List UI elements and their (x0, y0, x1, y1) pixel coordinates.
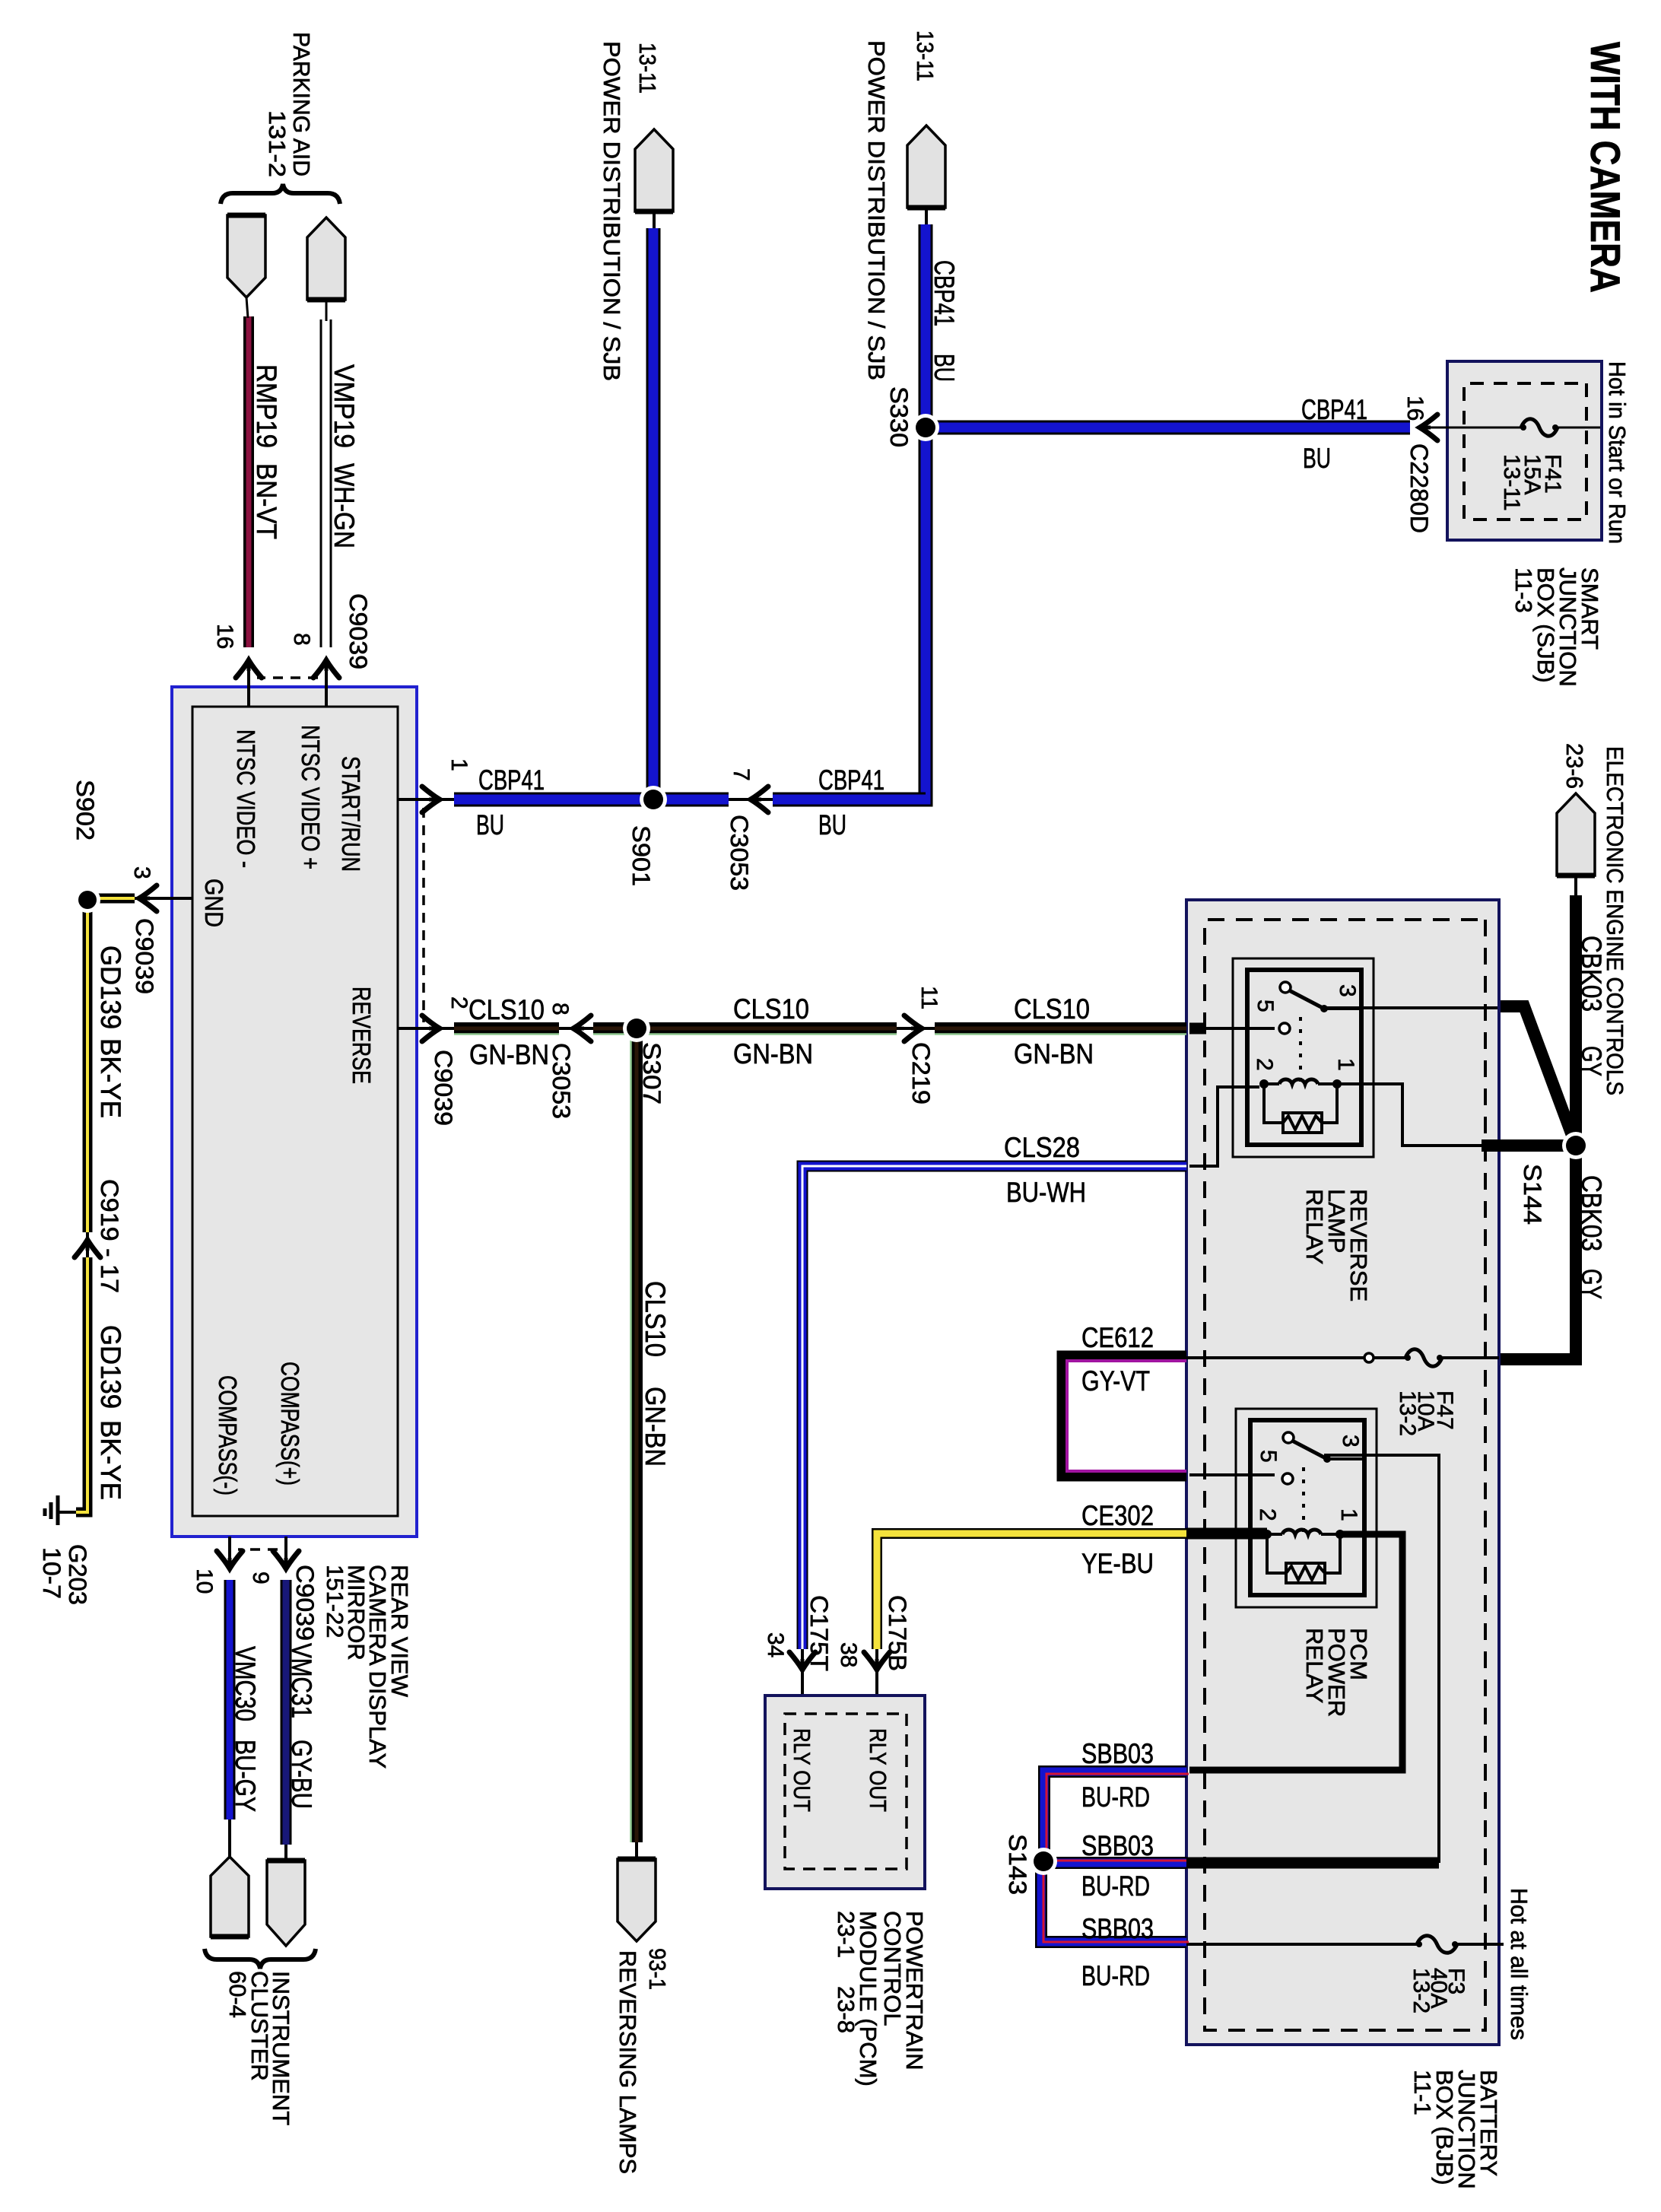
wire SBB03 BU-RD #2 from S143 to BJB (relay pin3) (1043, 1857, 1186, 1869)
svg-text:BK-YE: BK-YE (95, 1038, 126, 1118)
svg-text:CLS10: CLS10 (640, 1281, 671, 1357)
wire CBK03 GY heavy from S144 to corner and down to F47 (1570, 1146, 1582, 1359)
svg-text:C3053: C3053 (548, 1043, 575, 1119)
off-page arrow POWER DISTRIBUTION / SJB (to S901) (635, 129, 673, 211)
wire CLS28 BU-WH from BJB to corner and PCM (802, 1166, 1186, 1649)
svg-text:POWER DISTRIBUTION / SJB: POWER DISTRIBUTION / SJB (599, 41, 625, 381)
fuse F47 terminal circle (1364, 1353, 1374, 1362)
svg-text:COMPASS(-): COMPASS(-) (214, 1375, 242, 1495)
svg-text:VMC30: VMC30 (230, 1646, 261, 1721)
svg-text:VMC31: VMC31 (286, 1643, 317, 1718)
off-page arrow from PARKING AID (VMP19) (307, 218, 345, 300)
svg-text:C175T: C175T (805, 1595, 833, 1671)
svg-text:3: 3 (1335, 984, 1360, 997)
wire CLS10 GN-BN from S307 to C3053 (593, 1022, 637, 1034)
PCM power relay pin 5 wire to CE612 (1189, 1473, 1275, 1476)
svg-text:POWER DISTRIBUTION / SJB: POWER DISTRIBUTION / SJB (863, 40, 890, 380)
svg-text:CONTROL: CONTROL (879, 1911, 906, 2026)
wire VMC30 BU-GY from mirror pin 10 to instrument cluster (224, 1580, 236, 1819)
svg-text:START/RUN: START/RUN (337, 756, 365, 872)
svg-text:C919 - 17: C919 - 17 (96, 1179, 123, 1293)
splice S330 (912, 414, 939, 441)
dashed connector line C9039 pins 16-8 (257, 676, 318, 679)
mirror pin 10 lead and connector C9039 arrow (228, 1537, 231, 1567)
svg-text:BK-YE: BK-YE (95, 1420, 126, 1500)
wire CE612 GY-VT loop from BJB (F47) to BJB (PCM relay pin5) (1062, 1356, 1186, 1476)
svg-text:CBP41: CBP41 (1301, 394, 1367, 425)
relay REVERSE LAMP RELAY switch pivot circle (1280, 982, 1291, 993)
svg-text:WH-GN: WH-GN (329, 463, 360, 548)
svg-text:RLY OUT: RLY OUT (789, 1728, 815, 1812)
PCM power relay pin 1 wire loop to SBB03 (1189, 1534, 1402, 1770)
fuse F47 symbol (1405, 1349, 1442, 1367)
svg-text:GY: GY (1576, 1269, 1607, 1299)
svg-text:3: 3 (129, 866, 154, 879)
mirror inner box (192, 707, 398, 1516)
svg-text:NTSC VIDEO +: NTSC VIDEO + (297, 725, 325, 869)
svg-text:C9039: C9039 (430, 1050, 457, 1126)
mirror pin 8 lead and connector C9039 arrow (325, 662, 328, 707)
svg-text:2: 2 (1252, 1058, 1277, 1071)
relay PCM POWER RELAY pin 3 lead (1327, 1457, 1364, 1460)
ground G203 lead (58, 1511, 76, 1514)
wire GD139 BK-YE from C919 to ground G203 (76, 1257, 87, 1512)
svg-text:CBK03: CBK03 (1576, 936, 1607, 1012)
wire CBK03 GY heavy from EEC arrow to S144 (1574, 875, 1577, 895)
thin link at connector C3053 (CLS10) (559, 1027, 593, 1030)
wire SBB03 BU-RD #3 from S143 to BJB (F3) (1041, 1861, 1186, 1942)
svg-text:RELAY: RELAY (1301, 1628, 1328, 1703)
svg-text:CLS28: CLS28 (1004, 1132, 1080, 1163)
svg-text:C175B: C175B (884, 1595, 911, 1671)
mirror pin 2 lead and connector C9039 arrow (398, 1027, 454, 1030)
wire CBP41 BU vertical upper segment (corner to C3053) (773, 793, 926, 807)
connector C175B arrow pin 38 (875, 1649, 878, 1717)
svg-text:13-11: 13-11 (1499, 454, 1524, 511)
splice S143 (1030, 1848, 1057, 1875)
svg-text:WITH CAMERA: WITH CAMERA (1582, 42, 1629, 293)
diagonal heavy wire S144 to reverse lamp relay pin 3 entry (1497, 1006, 1576, 1146)
svg-text:CBK03: CBK03 (1576, 1175, 1607, 1251)
svg-text:13-2: 13-2 (1395, 1390, 1420, 1436)
svg-text:5: 5 (1253, 1000, 1278, 1012)
POWERTRAIN CONTROL MODULE box (765, 1696, 925, 1889)
svg-text:13-11: 13-11 (634, 43, 661, 94)
wire CLS10 GN-BN from C219 to S307 (637, 1022, 897, 1034)
svg-text:S144: S144 (1519, 1164, 1546, 1225)
svg-text:8: 8 (548, 1003, 573, 1015)
BATTERY JUNCTION BOX outer box (1186, 900, 1499, 2045)
wire CLS10 GN-BN from BJB to C219 (935, 1022, 1186, 1034)
connector C3053 arrow pin 8 (573, 1015, 591, 1041)
BJB inner dashed box (1205, 920, 1485, 2030)
svg-text:GD139: GD139 (95, 946, 126, 1029)
svg-text:2: 2 (446, 996, 472, 1009)
wire GD139 BK-YE from S902 to C919 (83, 900, 93, 1232)
svg-text:RLY OUT: RLY OUT (865, 1728, 891, 1812)
relay REVERSE LAMP RELAY outer box (1233, 958, 1374, 1157)
svg-text:REVERSING LAMPS: REVERSING LAMPS (615, 1950, 641, 2174)
svg-text:COMPASS(+): COMPASS(+) (276, 1362, 304, 1486)
svg-text:9: 9 (248, 1572, 273, 1584)
svg-text:131-2: 131-2 (264, 110, 291, 177)
svg-text:1: 1 (1336, 1508, 1361, 1521)
svg-text:11: 11 (916, 986, 942, 1009)
svg-text:11-1: 11-1 (1409, 2070, 1436, 2115)
relay REVERSE LAMP RELAY coil (1332, 1079, 1342, 1089)
svg-text:PARKING AID: PARKING AID (288, 32, 315, 176)
relay REVERSE LAMP RELAY resistor branch (1322, 1084, 1337, 1123)
svg-text:BU: BU (1303, 443, 1331, 474)
svg-text:C9039: C9039 (345, 593, 372, 669)
relay REVERSE LAMP RELAY pin 3 lead (1324, 1007, 1361, 1010)
svg-text:SBB03: SBB03 (1081, 1913, 1154, 1944)
svg-text:1: 1 (446, 758, 472, 771)
wire CBP41 BU vertical from SJB to S330 (932, 421, 1410, 435)
svg-text:ELECTRONIC ENGINE CONTROLS: ELECTRONIC ENGINE CONTROLS (1602, 746, 1628, 1095)
connector C219 arrow pin 11 (897, 1027, 935, 1030)
svg-text:GN-BN: GN-BN (469, 1039, 549, 1070)
PCM power relay pin 3 wire to SBB03 feed (1324, 1455, 1439, 1863)
off-page arrow ELECTRONIC ENGINE CONTROLS (1557, 793, 1595, 876)
svg-text:10-7: 10-7 (38, 1547, 65, 1599)
off-page arrow REVERSING LAMPS (635, 1842, 638, 1865)
svg-text:BN-VT: BN-VT (251, 463, 282, 539)
svg-text:CBP41: CBP41 (478, 764, 545, 796)
svg-text:CE302: CE302 (1081, 1500, 1154, 1531)
svg-text:CBP41: CBP41 (929, 260, 960, 326)
relay PCM POWER RELAY resistor zigzag (1286, 1566, 1325, 1580)
svg-text:13-2: 13-2 (1409, 1968, 1434, 2013)
relay REVERSE LAMP RELAY inner box (1247, 970, 1361, 1145)
svg-text:23-6: 23-6 (1561, 743, 1588, 789)
wire CE302 YE-BU from BJB to corner and PCM (877, 1533, 1186, 1649)
connector C3053 arrow pin 7 (751, 787, 768, 812)
mirror pin 16 lead and connector C9039 arrow (247, 662, 250, 707)
svg-text:5: 5 (1256, 1450, 1281, 1463)
wire SBB03 BU-RD #1 from BJB (relay pin1) to S143 (1044, 1772, 1186, 1861)
relay REVERSE LAMP RELAY resistor zigzag (1283, 1116, 1322, 1130)
svg-text:13-11: 13-11 (912, 30, 938, 81)
wire VMP19 WH-GN from parking aid to mirror pin 8 (white twisted pair) (330, 319, 332, 647)
reverse lamp relay pin 5 wire to CLS10 (1205, 1027, 1275, 1030)
mirror pin 1 lead and connector C9039 arrow (398, 798, 454, 801)
svg-text:GY-BU: GY-BU (286, 1740, 317, 1809)
splice S144 (1562, 1132, 1590, 1159)
splice S307 (623, 1015, 650, 1042)
svg-text:C3053: C3053 (726, 815, 753, 891)
svg-text:C9039: C9039 (131, 918, 158, 994)
svg-text:SBB03: SBB03 (1081, 1738, 1154, 1769)
off-page arrow POWER DISTRIBUTION / SJB (to S330) (907, 126, 945, 208)
svg-text:YE-BU: YE-BU (1081, 1548, 1154, 1579)
wire GD139 BK-YE stub pin3 to S902 (93, 894, 135, 904)
svg-text:BU-RD: BU-RD (1081, 1960, 1150, 1991)
harness brace PARKING AID (221, 184, 340, 204)
mirror pin 3 lead and connector C9039 arrow (135, 897, 192, 900)
svg-text:CLS10: CLS10 (733, 993, 809, 1025)
svg-text:Hot in Start or Run: Hot in Start or Run (1604, 361, 1631, 544)
svg-text:S143: S143 (1004, 1834, 1031, 1895)
svg-text:GY: GY (1576, 1046, 1607, 1076)
reverse lamp relay pin 1 wire to S144 (1337, 1084, 1482, 1146)
SJB inner dashed box (1464, 383, 1586, 520)
relay REVERSE LAMP RELAY armature dotted link (1299, 1017, 1302, 1082)
svg-text:BU: BU (476, 809, 504, 841)
svg-text:60-4: 60-4 (224, 1971, 251, 2018)
svg-text:BU-RD: BU-RD (1081, 1781, 1150, 1813)
reverse lamp relay pin 2 wire to CLS28 (1189, 1087, 1259, 1166)
connector C919-17 arrow (86, 1232, 89, 1257)
svg-text:REVERSE: REVERSE (348, 987, 376, 1084)
svg-text:Hot at all times: Hot at all times (1506, 1888, 1532, 2040)
dashed connector line C9039 pins 10-9 (238, 1548, 278, 1551)
wire CBP41 BU horizontal from arrow to S330 and corner (773, 224, 926, 799)
svg-text:11-3: 11-3 (1510, 567, 1537, 613)
svg-text:C2280D: C2280D (1405, 443, 1433, 533)
svg-text:G203: G203 (64, 1544, 91, 1605)
svg-text:7: 7 (729, 768, 754, 781)
REAR VIEW CAMERA DISPLAY MIRROR outer box (172, 687, 417, 1537)
harness brace INSTRUMENT CLUSTER (205, 1949, 316, 1969)
svg-text:SBB03: SBB03 (1081, 1830, 1154, 1861)
svg-text:BU-RD: BU-RD (1081, 1870, 1150, 1902)
connector C2280D arrow pin 16 (1420, 415, 1437, 440)
PCM power relay pin 2 wire to CE302 (heavy) (1186, 1528, 1267, 1540)
svg-text:34: 34 (763, 1632, 788, 1657)
svg-text:VMP19: VMP19 (329, 364, 360, 448)
wire CLS10 GN-BN from C3053 to mirror pin 2 (454, 1022, 559, 1034)
splice S902 (75, 887, 100, 913)
svg-text:C219: C219 (907, 1042, 935, 1104)
svg-text:93-1: 93-1 (644, 1948, 671, 1990)
svg-text:RELAY: RELAY (1301, 1189, 1328, 1264)
svg-text:C9039: C9039 (291, 1565, 319, 1641)
ground G203 symbol (56, 1495, 60, 1525)
wire RMP19 BN-VT from parking aid to mirror pin 16 (243, 316, 254, 647)
svg-text:CBP41: CBP41 (818, 764, 884, 796)
relay PCM POWER RELAY switch arm (1294, 1441, 1327, 1459)
fuse F41 line (1558, 427, 1600, 429)
svg-text:GY-VT: GY-VT (1081, 1365, 1150, 1397)
relay REVERSE LAMP RELAY pin 5 contact circle (1279, 1023, 1290, 1034)
wire CBP41 BU vertical lower segment (C3053 to mirror pin 1) (454, 793, 729, 807)
svg-text:16: 16 (212, 624, 237, 649)
splice S901 (640, 786, 667, 813)
svg-text:151-22: 151-22 (322, 1565, 348, 1638)
svg-text:BU: BU (818, 809, 846, 841)
relay PCM POWER RELAY resistor box (1286, 1563, 1325, 1583)
relay PCM POWER RELAY outer box (1236, 1409, 1377, 1607)
fuse F3 line (1457, 1943, 1504, 1946)
off-page arrow to PARKING AID (RMP19) (227, 215, 265, 297)
reverse lamp relay pin 3 entry wire (thin inside BJB) (1324, 1008, 1497, 1009)
relay REVERSE LAMP RELAY resistor box (1283, 1113, 1322, 1133)
svg-text:10: 10 (192, 1568, 217, 1594)
relay PCM POWER RELAY pin 5 contact circle (1282, 1473, 1293, 1484)
wire VMC31 GY-BU from mirror pin 9 to instrument cluster (281, 1580, 292, 1845)
dashed connector line C9039 pins 1-2 (422, 808, 425, 1022)
relay PCM POWER RELAY coil (1335, 1530, 1345, 1539)
PCM inner dashed box (785, 1714, 907, 1869)
svg-text:8: 8 (289, 633, 314, 646)
svg-text:2: 2 (1255, 1508, 1280, 1521)
svg-text:23-8: 23-8 (833, 1986, 859, 2033)
svg-text:BU-GY: BU-GY (230, 1740, 261, 1812)
mirror pin 9 lead and connector C9039 arrow (284, 1537, 287, 1567)
thin link at connector C3053 (CBP41) (729, 798, 773, 801)
fuse F41 symbol (1521, 419, 1558, 437)
svg-text:S901: S901 (627, 825, 655, 886)
wire CBP41 BU horizontal from arrow to S901 (646, 228, 661, 793)
wire CLS10 GN-BN from S307 to reversing lamps (630, 1028, 643, 1842)
svg-text:3: 3 (1338, 1435, 1363, 1448)
svg-text:NTSC VIDEO -: NTSC VIDEO - (232, 729, 260, 868)
svg-text:GN-BN: GN-BN (1014, 1038, 1094, 1069)
relay PCM POWER RELAY inner box (1250, 1420, 1364, 1595)
svg-text:BU: BU (929, 354, 960, 382)
svg-text:GN-BN: GN-BN (733, 1038, 813, 1069)
svg-text:CLS10: CLS10 (1014, 993, 1090, 1025)
svg-text:S902: S902 (71, 780, 99, 841)
svg-text:GD139: GD139 (95, 1325, 126, 1409)
fuse F3 symbol (1417, 1936, 1457, 1953)
relay PCM POWER RELAY switch pivot circle (1283, 1432, 1294, 1443)
connector C175T arrow pin 34 (801, 1649, 804, 1717)
SMART JUNCTION BOX outer box (1447, 361, 1602, 540)
svg-text:16: 16 (1402, 396, 1428, 421)
svg-text:RMP19: RMP19 (251, 364, 282, 448)
svg-text:CE612: CE612 (1081, 1322, 1154, 1353)
off-page arrow to INSTRUMENT CLUSTER (VMC31) (284, 1845, 287, 1861)
relay PCM POWER RELAY armature dotted link (1302, 1467, 1305, 1533)
fuse F47 line (1442, 1356, 1499, 1359)
svg-text:1: 1 (1333, 1058, 1358, 1071)
svg-text:GND: GND (200, 879, 228, 927)
relay PCM POWER RELAY resistor branch (1325, 1534, 1340, 1573)
svg-text:BU-WH: BU-WH (1006, 1177, 1086, 1208)
off-page arrow to INSTRUMENT CLUSTER (VMC30) (228, 1819, 231, 1857)
svg-text:GN-BN: GN-BN (640, 1387, 671, 1467)
svg-text:CLS10: CLS10 (468, 994, 545, 1025)
svg-text:38: 38 (836, 1642, 861, 1667)
relay REVERSE LAMP RELAY switch arm (1291, 991, 1324, 1009)
svg-text:23-1: 23-1 (833, 1911, 859, 1958)
svg-text:S330: S330 (885, 386, 913, 447)
